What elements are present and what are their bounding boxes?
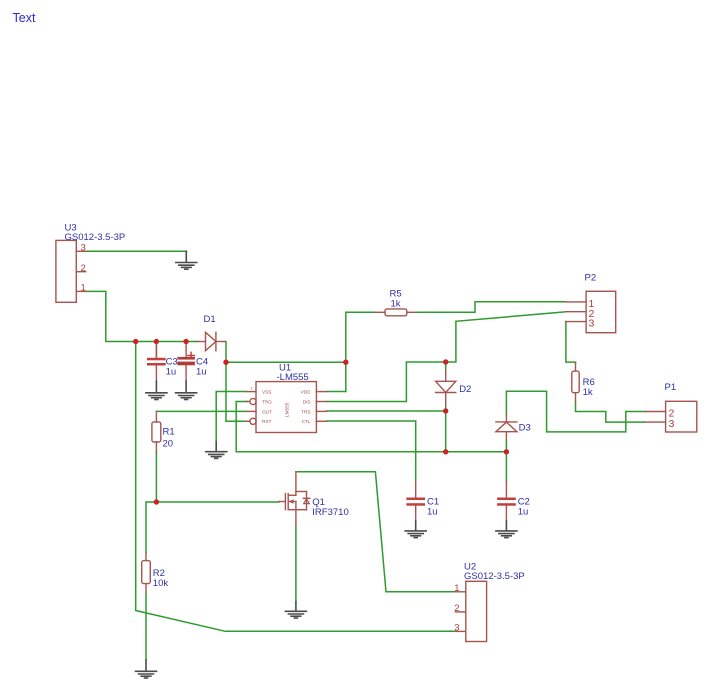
svg-text:LM555: LM555 bbox=[284, 402, 289, 417]
wire gate node to R2 bbox=[146, 502, 156, 553]
svg-text:1u: 1u bbox=[166, 367, 177, 378]
junction node at C4 / D1 anode bbox=[183, 339, 188, 344]
wire OUT to R1 top bbox=[156, 410, 246, 412]
wire Q1 source to ground bbox=[295, 525, 297, 602]
diode D1 bbox=[197, 332, 225, 350]
resistor R1 bbox=[152, 411, 161, 451]
junction node at R1 bottom / gate bbox=[154, 499, 159, 504]
connector P1 bbox=[645, 401, 697, 432]
capacitor C1 bbox=[415, 482, 417, 521]
svg-text:3: 3 bbox=[669, 418, 675, 430]
svg-text:IRF3710: IRF3710 bbox=[312, 507, 348, 518]
wire DIS to P2 pin2 with diagonal bbox=[327, 312, 566, 402]
C4 plus sign bbox=[188, 352, 194, 358]
wire TRS to D2 node bbox=[327, 410, 446, 412]
wire R5 left bbox=[346, 311, 375, 313]
svg-text:GS012-3.5-3P: GS012-3.5-3P bbox=[65, 232, 126, 243]
svg-text:2: 2 bbox=[81, 263, 86, 274]
svg-text:1k: 1k bbox=[391, 298, 401, 309]
wire node B vertical R5-left to VDD bbox=[345, 312, 347, 391]
wire TRG net to D3 anode bbox=[236, 402, 506, 452]
capacitor C4 (polarized) bbox=[185, 342, 187, 382]
svg-text:2: 2 bbox=[454, 603, 459, 614]
junction node A (D1 cathode / RST) bbox=[223, 360, 228, 365]
svg-text:CTL: CTL bbox=[302, 419, 311, 424]
ground at C2 bbox=[496, 521, 517, 538]
diode D2 bbox=[436, 370, 456, 406]
svg-text:DIS: DIS bbox=[303, 399, 311, 404]
wire VSS to ground bbox=[216, 392, 246, 443]
capacitor C3 bbox=[155, 342, 157, 382]
Q1 body diode triangle bbox=[304, 499, 310, 504]
wire P2 pin3 to R6 bbox=[566, 322, 576, 363]
resistor R6 bbox=[572, 363, 579, 402]
junction node at C3 bbox=[154, 339, 159, 344]
wire D2 cathode to TRS node to TRG net bbox=[445, 406, 447, 452]
svg-text:TRG: TRG bbox=[262, 399, 272, 404]
junction node at TRG net / D3 / C2 bbox=[504, 449, 509, 454]
wire C3 tap bbox=[155, 342, 157, 358]
junction node B (R5 left / VDD) bbox=[343, 360, 348, 365]
svg-text:1k: 1k bbox=[583, 387, 593, 398]
wire TRG net down to C2 bbox=[505, 452, 507, 482]
ground at C4 bbox=[176, 381, 197, 399]
connector P2 bbox=[566, 291, 616, 332]
svg-text:10k: 10k bbox=[153, 578, 169, 589]
svg-text:R1: R1 bbox=[163, 427, 175, 438]
wire Q1 drain to U2 pin1 bbox=[296, 472, 455, 592]
diode D3 bbox=[496, 415, 517, 441]
wire R6 bottom to P1 pin3 bbox=[576, 402, 646, 423]
IC U1 LM555 bbox=[246, 382, 327, 433]
ground at U1 VSS bbox=[206, 442, 227, 458]
ground at Q1 source bbox=[285, 602, 306, 618]
svg-text:Text: Text bbox=[13, 11, 36, 25]
svg-text:1u: 1u bbox=[518, 507, 529, 518]
wire R1 bottom to gate node bbox=[155, 452, 157, 503]
svg-text:D2: D2 bbox=[459, 384, 471, 395]
svg-text:1u: 1u bbox=[427, 507, 438, 518]
svg-text:-LM555: -LM555 bbox=[277, 372, 309, 383]
resistor R5 bbox=[375, 309, 417, 316]
wire VCC bus left vertical to U2 pin3 bbox=[136, 342, 456, 632]
svg-text:1: 1 bbox=[251, 386, 254, 391]
junction node at TRG net / D2 branch bbox=[443, 449, 448, 454]
svg-text:VSS: VSS bbox=[262, 390, 271, 395]
svg-text:TRS: TRS bbox=[301, 409, 310, 414]
ground at C1 bbox=[405, 521, 426, 538]
svg-text:D1: D1 bbox=[204, 314, 216, 325]
wire node A to node B horizontal bbox=[226, 361, 346, 363]
connector U2 GS012-3.5-3P bbox=[455, 581, 486, 641]
ground at U3 pin3 bbox=[176, 251, 197, 269]
wire gate node to Q1 gate bbox=[156, 501, 278, 503]
connector U3 GS012-3.5-3P bbox=[56, 240, 86, 302]
junction node at D2 cathode / TRS bbox=[443, 408, 448, 413]
wire U3 pin1 down to VCC bus bbox=[86, 291, 197, 341]
svg-text:RST: RST bbox=[262, 419, 272, 424]
wire RST to node A vertical bbox=[226, 420, 246, 422]
wire D2 anode from node bbox=[445, 362, 447, 370]
svg-text:1: 1 bbox=[81, 283, 86, 294]
wire D1 cathode down to node A bbox=[224, 342, 227, 422]
wire R2 bottom to ground bbox=[145, 592, 147, 660]
wire U3 pin3 to ground bbox=[86, 250, 187, 252]
wire CTL to C1 bbox=[327, 421, 416, 482]
svg-text:3: 3 bbox=[589, 318, 595, 330]
svg-text:1: 1 bbox=[454, 583, 459, 594]
Q1 source arrow bbox=[289, 499, 294, 504]
svg-text:P2: P2 bbox=[585, 272, 597, 283]
svg-text:20: 20 bbox=[163, 439, 174, 450]
resistor R2 bbox=[142, 553, 151, 593]
wire R5 right to P2 pin1 bbox=[417, 302, 566, 313]
wire VDD pin to node B vertical bbox=[327, 391, 346, 393]
svg-text:D3: D3 bbox=[519, 423, 531, 434]
svg-text:P1: P1 bbox=[665, 382, 677, 393]
transistor Q1 IRF3710 bbox=[279, 472, 310, 525]
junction node at D2 anode / DIS bbox=[443, 359, 448, 364]
junction node on VCC bus at left vertical bbox=[133, 339, 138, 344]
wire D3 cathode to P1 pin2 bbox=[506, 391, 645, 432]
wire D3 anode to TRG net bbox=[505, 441, 507, 452]
svg-text:VDD: VDD bbox=[301, 390, 312, 395]
svg-text:OUT: OUT bbox=[262, 409, 272, 414]
ground at R2 bottom bbox=[136, 660, 157, 678]
svg-text:3: 3 bbox=[454, 623, 459, 634]
svg-text:GS012-3.5-3P: GS012-3.5-3P bbox=[464, 571, 525, 582]
svg-text:1u: 1u bbox=[196, 367, 207, 378]
svg-text:3: 3 bbox=[81, 243, 86, 254]
capacitor C2 bbox=[505, 482, 507, 521]
ground at C3 bbox=[146, 381, 167, 399]
